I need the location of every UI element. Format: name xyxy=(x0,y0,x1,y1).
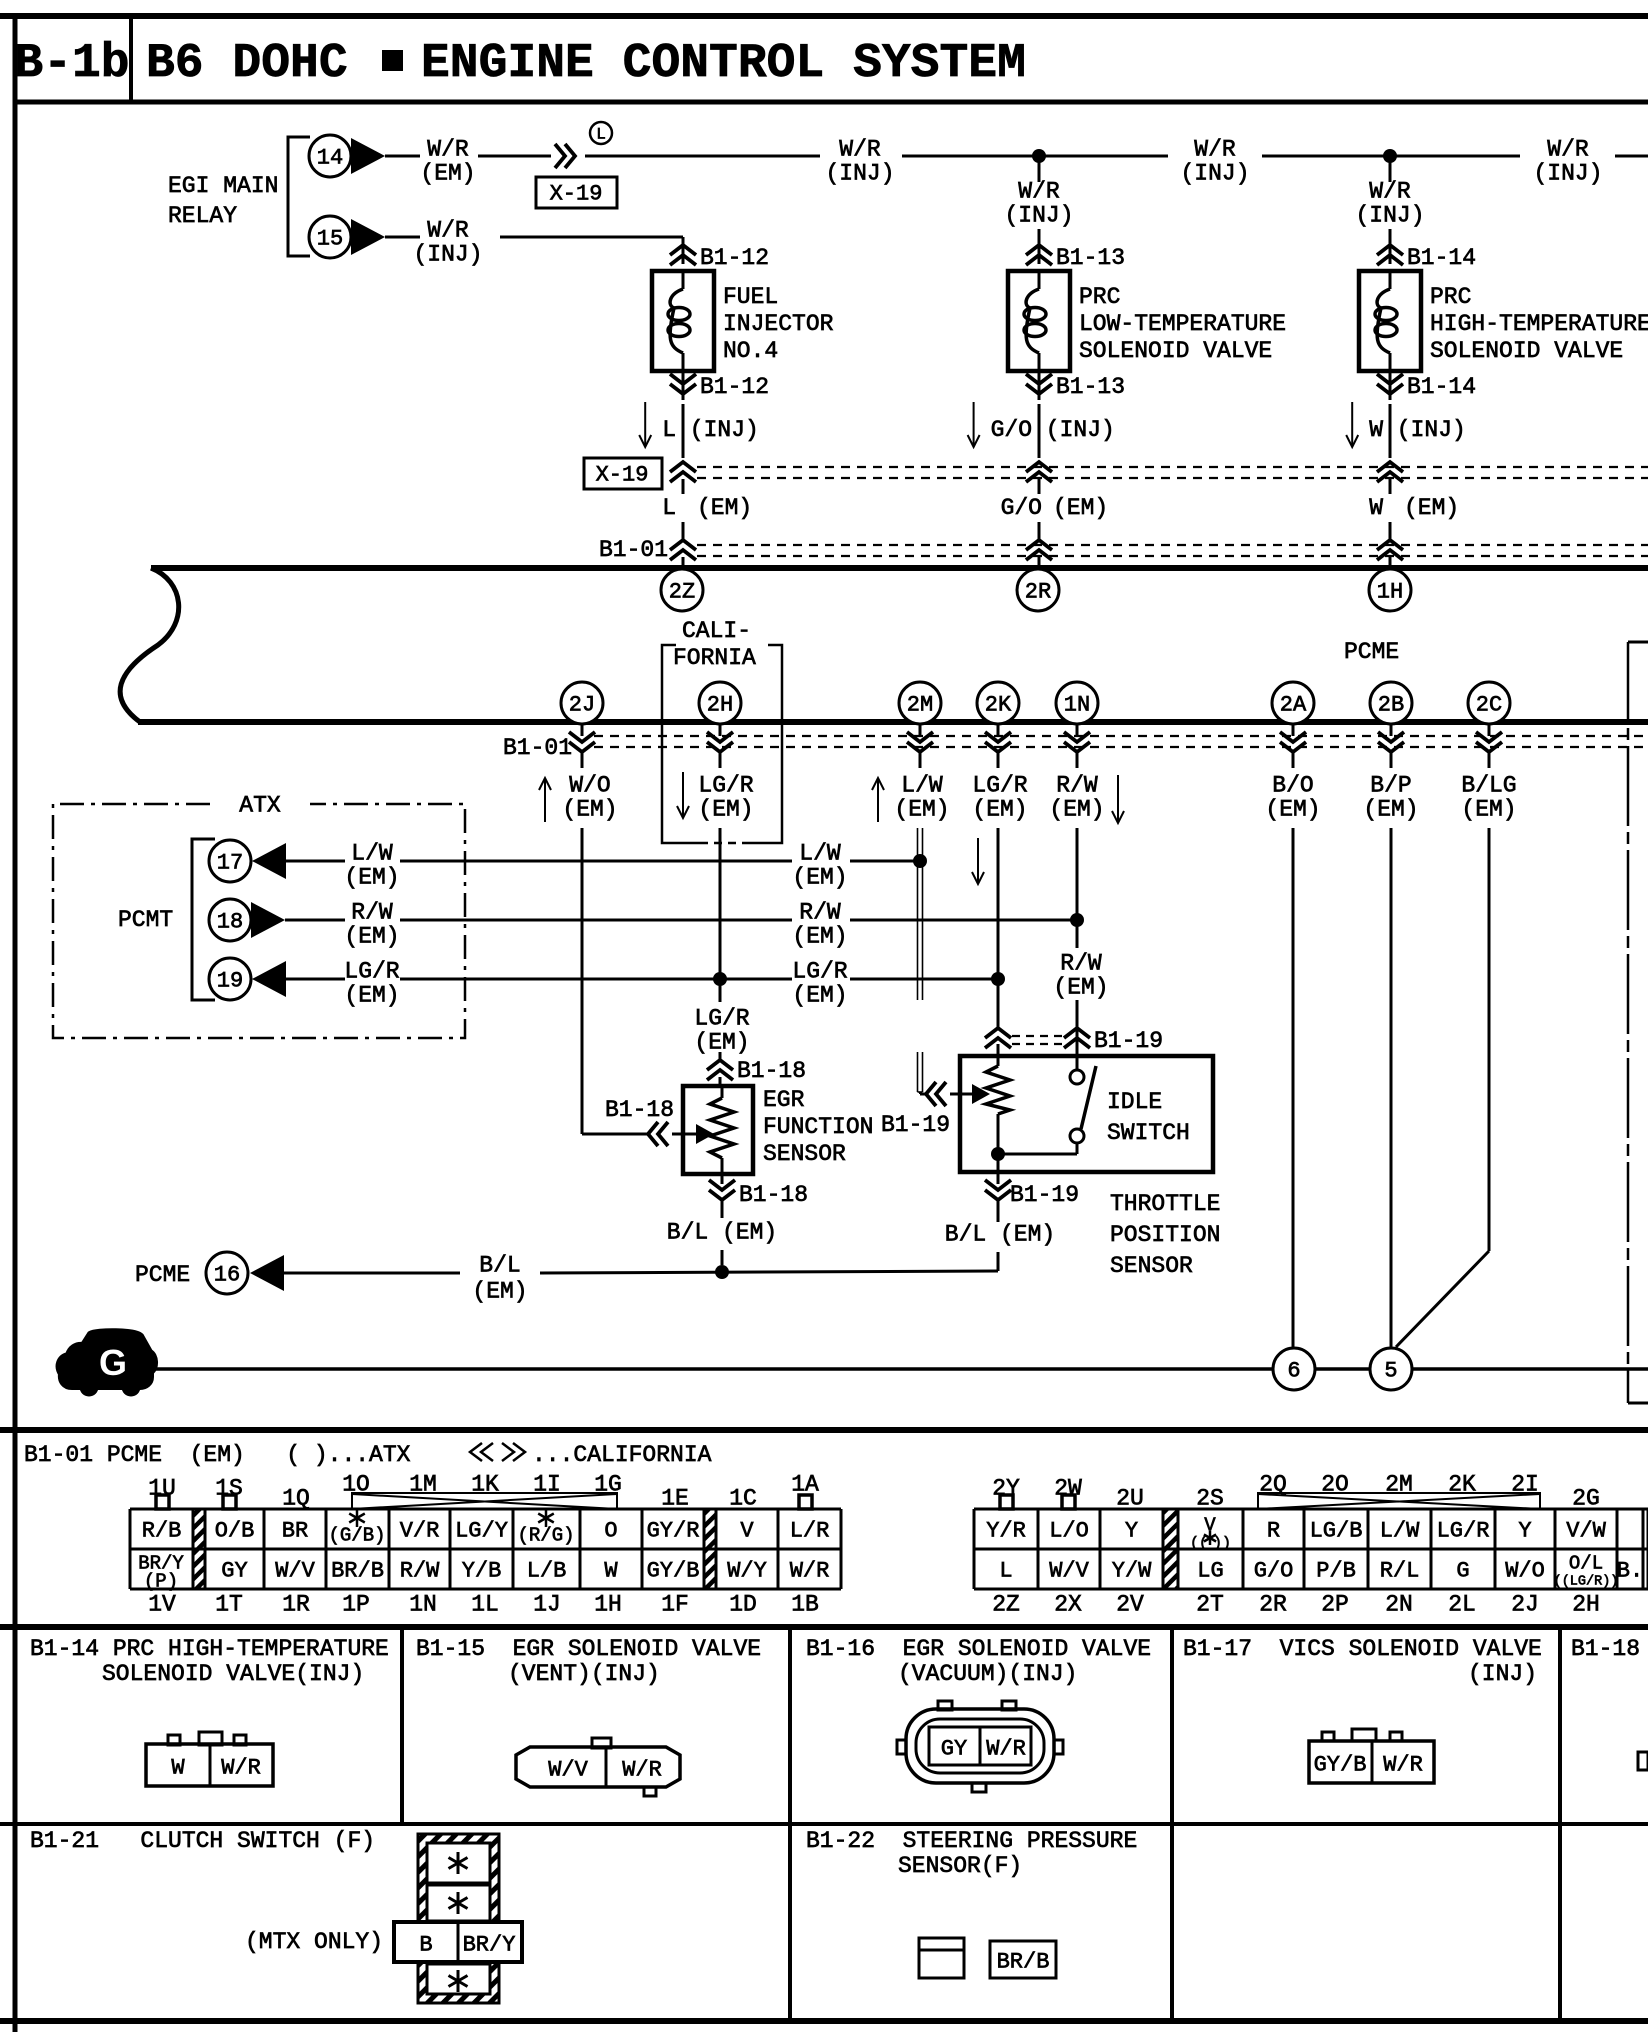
wire 2J W/O down xyxy=(581,753,584,768)
svg-text:B1-12: B1-12 xyxy=(700,374,769,400)
svg-text:GY: GY xyxy=(221,1558,247,1583)
svg-text:2R: 2R xyxy=(1025,579,1051,604)
connector X-19 dashed run upper xyxy=(697,466,1648,468)
svg-text:SOLENOID VALVE: SOLENOID VALVE xyxy=(1430,338,1623,364)
svg-text:B1-18: B1-18 xyxy=(1571,1636,1640,1662)
svg-text:((: (( xyxy=(1190,1535,1208,1552)
svg-text:FORNIA: FORNIA xyxy=(673,645,756,671)
wire W/R (INJ) from pin 15 xyxy=(385,236,420,239)
svg-text:LG/Y: LG/Y xyxy=(455,1518,508,1543)
svg-text:B1-15 EGR SOLENOID VALVE: B1-15 EGR SOLENOID VALVE xyxy=(416,1636,761,1662)
svg-text:(EM): (EM) xyxy=(698,797,753,823)
svg-text:THROTTLE: THROTTLE xyxy=(1110,1191,1220,1217)
svg-text:(VENT)(INJ): (VENT)(INJ) xyxy=(508,1661,660,1687)
PCMT pin 19 xyxy=(209,958,251,1000)
wire 2H LG/R down xyxy=(719,753,722,768)
svg-text:BR: BR xyxy=(282,1518,308,1543)
svg-text:2C: 2C xyxy=(1476,692,1502,717)
svg-text:(P): (P) xyxy=(144,1570,178,1592)
svg-text:R/W: R/W xyxy=(400,1558,440,1583)
svg-text:LG/B: LG/B xyxy=(1310,1518,1363,1543)
svg-text:GY: GY xyxy=(941,1736,967,1761)
svg-text:15: 15 xyxy=(317,226,343,251)
svg-text:(INJ): (INJ) xyxy=(1180,161,1249,187)
bus connector circle 2K xyxy=(977,682,1019,724)
svg-text:R/W: R/W xyxy=(1056,773,1098,799)
svg-text:W/Y: W/Y xyxy=(727,1558,767,1583)
svg-text:BR/Y: BR/Y xyxy=(463,1932,516,1957)
svg-text:B1-16 EGR SOLENOID VALVE: B1-16 EGR SOLENOID VALVE xyxy=(806,1636,1151,1662)
connector drawing B1-17 xyxy=(1322,1732,1334,1741)
connector B1-12 upper chevron xyxy=(670,245,696,265)
bus connector circle 2M xyxy=(899,682,941,724)
svg-text:1H: 1H xyxy=(594,1592,622,1618)
svg-text:B/L: B/L xyxy=(479,1253,520,1279)
svg-text:B1-18: B1-18 xyxy=(739,1182,808,1208)
ground wire xyxy=(152,1367,1273,1371)
svg-text:GY/B: GY/B xyxy=(647,1558,700,1583)
svg-text:W/R: W/R xyxy=(1383,1752,1423,1777)
svg-text:(EM): (EM) xyxy=(1053,975,1108,1001)
svg-text:O/L: O/L xyxy=(1569,1552,1603,1574)
wire B1-18 wiper from 2J xyxy=(582,1133,648,1136)
svg-text:L (INJ): L (INJ) xyxy=(662,417,759,443)
ground connector circle 6 xyxy=(1273,1348,1315,1390)
junction dot LG/R at 2K xyxy=(991,972,1005,986)
junction dot R/W at 1N xyxy=(1070,913,1084,927)
svg-text:(EM): (EM) xyxy=(344,865,399,891)
svg-text:BR/B: BR/B xyxy=(331,1558,384,1583)
svg-text:L/W: L/W xyxy=(901,773,943,799)
throttle position sensor box xyxy=(960,1056,1213,1172)
svg-text:G/O: G/O xyxy=(1001,495,1042,521)
svg-text:B-1b: B-1b xyxy=(14,37,129,91)
svg-text:(MTX ONLY): (MTX ONLY) xyxy=(245,1929,383,1955)
svg-text:W (INJ): W (INJ) xyxy=(1369,417,1466,443)
svg-text:SWITCH: SWITCH xyxy=(1107,1120,1190,1146)
wire B1-13 vertical xyxy=(1038,229,1041,264)
outer border left xyxy=(13,13,18,2032)
wire to X-19 B1-14 xyxy=(1389,404,1392,458)
svg-text:19: 19 xyxy=(217,968,243,993)
svg-text:14: 14 xyxy=(317,145,343,170)
svg-text:SENSOR: SENSOR xyxy=(763,1141,846,1167)
svg-text:W/V: W/V xyxy=(548,1757,588,1782)
svg-text:L/O: L/O xyxy=(1049,1518,1089,1543)
connector drawing B1-22 xyxy=(919,1938,964,1978)
svg-text:B1-18: B1-18 xyxy=(605,1097,674,1123)
connector X-19 box xyxy=(536,177,617,208)
PCME partial box right xyxy=(1628,641,1648,644)
svg-text:BR/B: BR/B xyxy=(997,1949,1050,1974)
svg-text:R/B: R/B xyxy=(142,1518,182,1543)
PCMT pin 17 arrow xyxy=(252,843,286,879)
svg-text:2G: 2G xyxy=(1572,1486,1600,1512)
svg-text:(R/G): (R/G) xyxy=(517,1524,574,1546)
svg-text:B1-18: B1-18 xyxy=(737,1058,806,1084)
wire B1-14 vertical xyxy=(1389,229,1392,264)
svg-text:B/O: B/O xyxy=(1272,773,1313,799)
svg-text:W/O: W/O xyxy=(1505,1558,1545,1583)
svg-text:L/B: L/B xyxy=(527,1558,567,1583)
svg-text:2N: 2N xyxy=(1385,1592,1413,1618)
svg-text:B1-13: B1-13 xyxy=(1056,374,1125,400)
svg-text:G: G xyxy=(99,1342,127,1383)
svg-text:LG/R: LG/R xyxy=(694,1006,749,1032)
svg-text:(INJ): (INJ) xyxy=(1004,203,1073,229)
connector X-19 box lower xyxy=(584,458,662,489)
svg-text:B/L (EM): B/L (EM) xyxy=(945,1222,1055,1248)
junction dot L/W at 2M xyxy=(913,854,927,868)
svg-text:W/R: W/R xyxy=(839,137,881,163)
svg-text:B1-01: B1-01 xyxy=(599,537,668,563)
connector detail grid xyxy=(0,2018,1648,2024)
svg-text:EGI MAIN: EGI MAIN xyxy=(168,173,278,199)
svg-text:(EM): (EM) xyxy=(1461,797,1516,823)
svg-text:G/O: G/O xyxy=(1254,1558,1294,1583)
svg-text:B1-13: B1-13 xyxy=(1056,245,1125,271)
svg-text:SENSOR(F): SENSOR(F) xyxy=(898,1853,1022,1879)
svg-text:R: R xyxy=(1267,1518,1280,1543)
svg-text:PCME: PCME xyxy=(1344,639,1399,665)
bus connector circle 2C xyxy=(1468,682,1510,724)
svg-text:Y/B: Y/B xyxy=(462,1558,502,1583)
svg-text:2S: 2S xyxy=(1196,1486,1224,1512)
svg-text:INJECTOR: INJECTOR xyxy=(723,311,834,337)
svg-text:B6 DOHC: B6 DOHC xyxy=(146,37,348,91)
svg-text:X-19: X-19 xyxy=(550,181,603,206)
EGR sensor resistor xyxy=(721,1086,724,1098)
svg-text:(EM): (EM) xyxy=(1053,495,1108,521)
svg-text:B1-19: B1-19 xyxy=(1094,1028,1163,1054)
svg-text:W/R: W/R xyxy=(986,1736,1026,1761)
svg-text:2Y: 2Y xyxy=(992,1476,1020,1502)
connector B1-18 chevron above EGR xyxy=(719,1052,722,1060)
svg-text:V/W: V/W xyxy=(1566,1518,1606,1543)
connector drawing B1-21 xyxy=(418,1834,499,2003)
svg-text:1N: 1N xyxy=(1064,692,1090,717)
svg-text:(EM): (EM) xyxy=(472,1279,527,1305)
svg-text:G/O (INJ): G/O (INJ) xyxy=(991,417,1115,443)
ground connector circle 5 xyxy=(1370,1348,1412,1390)
TPS resistor xyxy=(997,1044,1000,1066)
svg-text:LG/R: LG/R xyxy=(792,959,847,985)
svg-text:)): )) xyxy=(1213,1535,1231,1552)
ground car symbol G xyxy=(59,1331,155,1387)
connector B1-13 upper chevron xyxy=(1026,245,1052,265)
svg-text:B1-01 PCME (EM) ( )...ATX: B1-01 PCME (EM) ( )...ATX xyxy=(24,1442,411,1468)
svg-text:B1-14 PRC HIGH-TEMPERATURE: B1-14 PRC HIGH-TEMPERATURE xyxy=(30,1636,389,1662)
svg-text:2R: 2R xyxy=(1259,1592,1287,1618)
svg-text:(EM): (EM) xyxy=(1049,797,1104,823)
svg-text:2X: 2X xyxy=(1054,1592,1082,1618)
connector drawing B1-16 xyxy=(938,1701,952,1710)
svg-text:(INJ): (INJ) xyxy=(825,161,894,187)
svg-text:(EM): (EM) xyxy=(697,495,752,521)
connector B1-19 chevron below TPS xyxy=(997,1160,1000,1184)
svg-text:SOLENOID VALVE: SOLENOID VALVE xyxy=(1079,338,1272,364)
svg-text:FUNCTION: FUNCTION xyxy=(763,1114,873,1140)
svg-text:17: 17 xyxy=(217,850,243,875)
svg-text:(EM): (EM) xyxy=(792,983,847,1009)
connector B1-01 chevron B1-14 column xyxy=(1389,522,1392,540)
svg-text:1D: 1D xyxy=(729,1592,757,1618)
svg-text:(EM): (EM) xyxy=(694,1030,749,1056)
component coil PRC LOW xyxy=(1038,271,1041,289)
svg-text:W: W xyxy=(1369,495,1383,521)
svg-text:...CALIFORNIA: ...CALIFORNIA xyxy=(532,1442,712,1468)
svg-text:6: 6 xyxy=(1287,1358,1300,1383)
connector drawing B1-15 xyxy=(592,1738,611,1748)
svg-text:Y/R: Y/R xyxy=(986,1518,1026,1543)
svg-text:1N: 1N xyxy=(409,1592,437,1618)
svg-text:Y/W: Y/W xyxy=(1112,1558,1152,1583)
connector B1-12 lower chevron xyxy=(682,371,685,400)
PCME bottom bus xyxy=(138,719,1648,725)
arrow on LG/R wire xyxy=(977,838,979,884)
svg-text:W: W xyxy=(171,1755,185,1780)
wire 2C B/LG down xyxy=(1488,753,1491,768)
svg-text:ATX: ATX xyxy=(239,793,281,819)
svg-text:PRC: PRC xyxy=(1430,284,1471,310)
svg-text:R/W: R/W xyxy=(799,900,841,926)
svg-text:B1-17 VICS SOLENOID VALVE: B1-17 VICS SOLENOID VALVE xyxy=(1183,1636,1542,1662)
svg-text:LG/R: LG/R xyxy=(698,773,753,799)
svg-text:Y: Y xyxy=(1125,1518,1138,1543)
svg-text:1R: 1R xyxy=(282,1592,310,1618)
wire 2K LG/R down xyxy=(997,753,1000,768)
svg-text:(EM): (EM) xyxy=(344,983,399,1009)
svg-text:V/R: V/R xyxy=(400,1518,440,1543)
wire label W/O (EM) 2J xyxy=(544,778,546,822)
PCMT pin 19 arrow xyxy=(252,961,286,997)
svg-text:GY/B: GY/B xyxy=(1314,1752,1367,1777)
table section bottom border xyxy=(0,1624,1648,1630)
svg-text:B/L (EM): B/L (EM) xyxy=(667,1220,777,1246)
wire label W (INJ) xyxy=(1351,402,1353,447)
junction dot TPS common xyxy=(991,1147,1005,1161)
svg-text:1F: 1F xyxy=(661,1592,689,1618)
svg-text:PRC: PRC xyxy=(1079,284,1120,310)
svg-text:R/L: R/L xyxy=(1380,1558,1420,1583)
svg-text:W/R: W/R xyxy=(622,1757,662,1782)
PCME pin 16 arrow xyxy=(250,1255,284,1291)
svg-text:16: 16 xyxy=(214,1262,240,1287)
EGR function sensor box xyxy=(683,1086,753,1174)
wire B1-12 vertical xyxy=(682,237,685,264)
wire 2B B/P down xyxy=(1390,753,1393,768)
wire B/LG diagonal to circle 5 xyxy=(1396,1251,1489,1347)
bus connector circle 1H xyxy=(1369,569,1411,611)
wire label L (INJ) xyxy=(644,402,646,447)
svg-text:LG/R: LG/R xyxy=(1437,1518,1490,1543)
header box B-1b xyxy=(15,100,1648,105)
junction dot LG/R at 2H xyxy=(713,972,727,986)
svg-text:1E: 1E xyxy=(661,1486,689,1512)
svg-text:O: O xyxy=(604,1518,617,1543)
svg-text:LOW-TEMPERATURE: LOW-TEMPERATURE xyxy=(1079,311,1286,337)
svg-text:1H: 1H xyxy=(1377,579,1403,604)
svg-text:W/R: W/R xyxy=(1194,137,1236,163)
svg-text:(EM): (EM) xyxy=(1363,797,1418,823)
svg-text:LG: LG xyxy=(1197,1558,1223,1583)
wire to X-19 B1-13 xyxy=(1038,404,1041,458)
connector B1-13 lower chevron xyxy=(1038,371,1041,400)
bus connector circle 2Z xyxy=(661,569,703,611)
svg-text:B/LG: B/LG xyxy=(1461,773,1516,799)
bus S-curve left end xyxy=(120,568,179,722)
relay pin 15 xyxy=(309,216,351,258)
svg-text:L: L xyxy=(662,495,676,521)
svg-text:(EM): (EM) xyxy=(420,161,475,187)
svg-text:L/W: L/W xyxy=(1380,1518,1420,1543)
svg-text:W/R: W/R xyxy=(427,218,469,244)
relay pin 15 arrow xyxy=(351,219,385,255)
bus connector circle 2H xyxy=(699,682,741,724)
svg-text:B1-19: B1-19 xyxy=(1010,1182,1079,1208)
svg-text:(EM): (EM) xyxy=(344,924,399,950)
svg-text:2H: 2H xyxy=(1572,1592,1600,1618)
wire 1N R/W down xyxy=(1076,753,1079,768)
wire 2A B/O down xyxy=(1292,753,1295,768)
svg-text:5: 5 xyxy=(1384,1358,1397,1383)
svg-text:W: W xyxy=(604,1558,618,1583)
PCMT pin 18 xyxy=(209,899,251,941)
svg-text:W/R: W/R xyxy=(790,1558,830,1583)
connector B1-01 chevron B1-12 column xyxy=(682,522,685,540)
svg-text:W/R: W/R xyxy=(1547,137,1589,163)
svg-text:L: L xyxy=(999,1558,1012,1583)
svg-text:(EM): (EM) xyxy=(972,797,1027,823)
svg-text:X-19: X-19 xyxy=(596,462,649,487)
component box PRC HIGH xyxy=(1359,271,1421,371)
svg-text:W/R: W/R xyxy=(221,1755,261,1780)
PCMT pin 17 xyxy=(209,840,251,882)
svg-text:POSITION: POSITION xyxy=(1110,1222,1220,1248)
idle switch xyxy=(1076,1044,1079,1056)
connector B1-14 lower chevron xyxy=(1389,371,1392,400)
svg-text:NO.4: NO.4 xyxy=(723,338,778,364)
table section top border xyxy=(0,1427,1648,1433)
svg-text:(INJ): (INJ) xyxy=(1468,1661,1537,1687)
relay pin 14 arrow xyxy=(351,138,385,174)
svg-text:1T: 1T xyxy=(215,1592,243,1618)
svg-text:V: V xyxy=(740,1518,754,1543)
connector drawing B1-18 partial tab xyxy=(1638,1752,1648,1770)
svg-text:Y: Y xyxy=(1518,1518,1531,1543)
svg-text:W/R: W/R xyxy=(1369,179,1411,205)
svg-text:(EM): (EM) xyxy=(562,797,617,823)
TPS wiper from 2M xyxy=(918,1091,923,1093)
svg-text:2J: 2J xyxy=(569,692,595,717)
svg-text:(EM): (EM) xyxy=(792,865,847,891)
svg-text:2P: 2P xyxy=(1321,1592,1349,1618)
svg-text:B1-12: B1-12 xyxy=(700,245,769,271)
PRC low-temperature solenoid valve column xyxy=(1038,156,1041,182)
svg-text:B1-19: B1-19 xyxy=(881,1112,950,1138)
svg-text:B: B xyxy=(419,1932,432,1957)
svg-text:1L: 1L xyxy=(471,1592,499,1618)
wire label LG/R (EM) 2H xyxy=(682,772,684,818)
wire L/W from pin 17 xyxy=(286,860,345,863)
svg-text:B1-01: B1-01 xyxy=(503,735,572,761)
svg-text:2W: 2W xyxy=(1054,1476,1082,1502)
connector drawing B1-14 xyxy=(168,1735,180,1745)
connector B1-01 chevrons below bus xyxy=(581,725,584,736)
outer border top xyxy=(0,13,1648,19)
svg-text:LG/R: LG/R xyxy=(344,959,399,985)
label BR/B boxed xyxy=(990,1941,1056,1978)
svg-text:18: 18 xyxy=(217,909,243,934)
wire 2M L/W down double xyxy=(919,753,922,768)
svg-text:2J: 2J xyxy=(1511,1592,1539,1618)
wire label G/O (INJ) xyxy=(973,402,975,447)
svg-text:B1-14: B1-14 xyxy=(1407,374,1476,400)
wire label L/W (EM) 2M xyxy=(877,778,879,822)
connector B1-14 upper chevron xyxy=(1377,245,1403,265)
svg-text:2L: 2L xyxy=(1448,1592,1476,1618)
svg-text:1V: 1V xyxy=(148,1592,176,1618)
wire to X-19 B1-12 xyxy=(682,404,685,458)
svg-text:PCMT: PCMT xyxy=(118,907,173,933)
svg-text:SOLENOID VALVE(INJ): SOLENOID VALVE(INJ) xyxy=(102,1661,364,1687)
PCMT pin 18 arrow xyxy=(251,902,285,938)
junction dot W/R at PRC high column xyxy=(1383,149,1397,163)
svg-text:(VACUUM)(INJ): (VACUUM)(INJ) xyxy=(898,1661,1077,1687)
PRC high-temperature solenoid valve column xyxy=(1389,156,1392,182)
svg-text:HIGH-TEMPERATURE: HIGH-TEMPERATURE xyxy=(1430,311,1648,337)
svg-text:G: G xyxy=(1456,1558,1469,1583)
svg-text:IDLE: IDLE xyxy=(1107,1089,1162,1115)
svg-text:(INJ): (INJ) xyxy=(1533,161,1602,187)
component coil PRC HIGH xyxy=(1389,271,1392,289)
svg-text:1U: 1U xyxy=(148,1476,176,1502)
bus connector circle 2J xyxy=(561,682,603,724)
svg-text:1P: 1P xyxy=(342,1592,370,1618)
svg-text:B1-22 STEERING PRESSURE: B1-22 STEERING PRESSURE xyxy=(806,1828,1137,1854)
svg-text:B.: B. xyxy=(1617,1558,1643,1583)
svg-text:LG/R: LG/R xyxy=(972,773,1027,799)
svg-text:W/O: W/O xyxy=(569,773,610,799)
component box FUEL INJECTOR NO.4 xyxy=(652,271,714,371)
svg-text:W/R: W/R xyxy=(1018,179,1060,205)
svg-text:W/R: W/R xyxy=(427,137,469,163)
bus connector circle 2A xyxy=(1272,682,1314,724)
svg-text:2Z: 2Z xyxy=(992,1592,1020,1618)
ATX box xyxy=(53,804,465,1038)
svg-text:SENSOR: SENSOR xyxy=(1110,1253,1193,1279)
component coil FUEL INJECTOR NO.4 xyxy=(682,271,685,289)
junction dot B/L xyxy=(715,1265,729,1279)
svg-text:1Q: 1Q xyxy=(282,1486,310,1512)
svg-text:R/W: R/W xyxy=(1060,951,1102,977)
svg-text:2A: 2A xyxy=(1280,692,1307,717)
connector B1-18 chevron below EGR xyxy=(721,1174,724,1184)
svg-text:O/B: O/B xyxy=(215,1518,255,1543)
connector X-19 circle L xyxy=(590,122,612,144)
svg-text:(G/B): (G/B) xyxy=(328,1524,385,1546)
svg-text:P/B: P/B xyxy=(1316,1558,1356,1583)
svg-text:2V: 2V xyxy=(1116,1592,1144,1618)
wire LG/R from pin 19 xyxy=(286,978,345,981)
PCME pin 16 xyxy=(206,1252,248,1294)
wire W/R (INJ) top run xyxy=(585,155,820,158)
svg-text:(EM): (EM) xyxy=(792,924,847,950)
svg-text:2Z: 2Z xyxy=(669,579,695,604)
wire B/L to pin 16 xyxy=(284,1272,460,1275)
svg-text:FUEL: FUEL xyxy=(723,284,778,310)
svg-text:1C: 1C xyxy=(729,1486,757,1512)
